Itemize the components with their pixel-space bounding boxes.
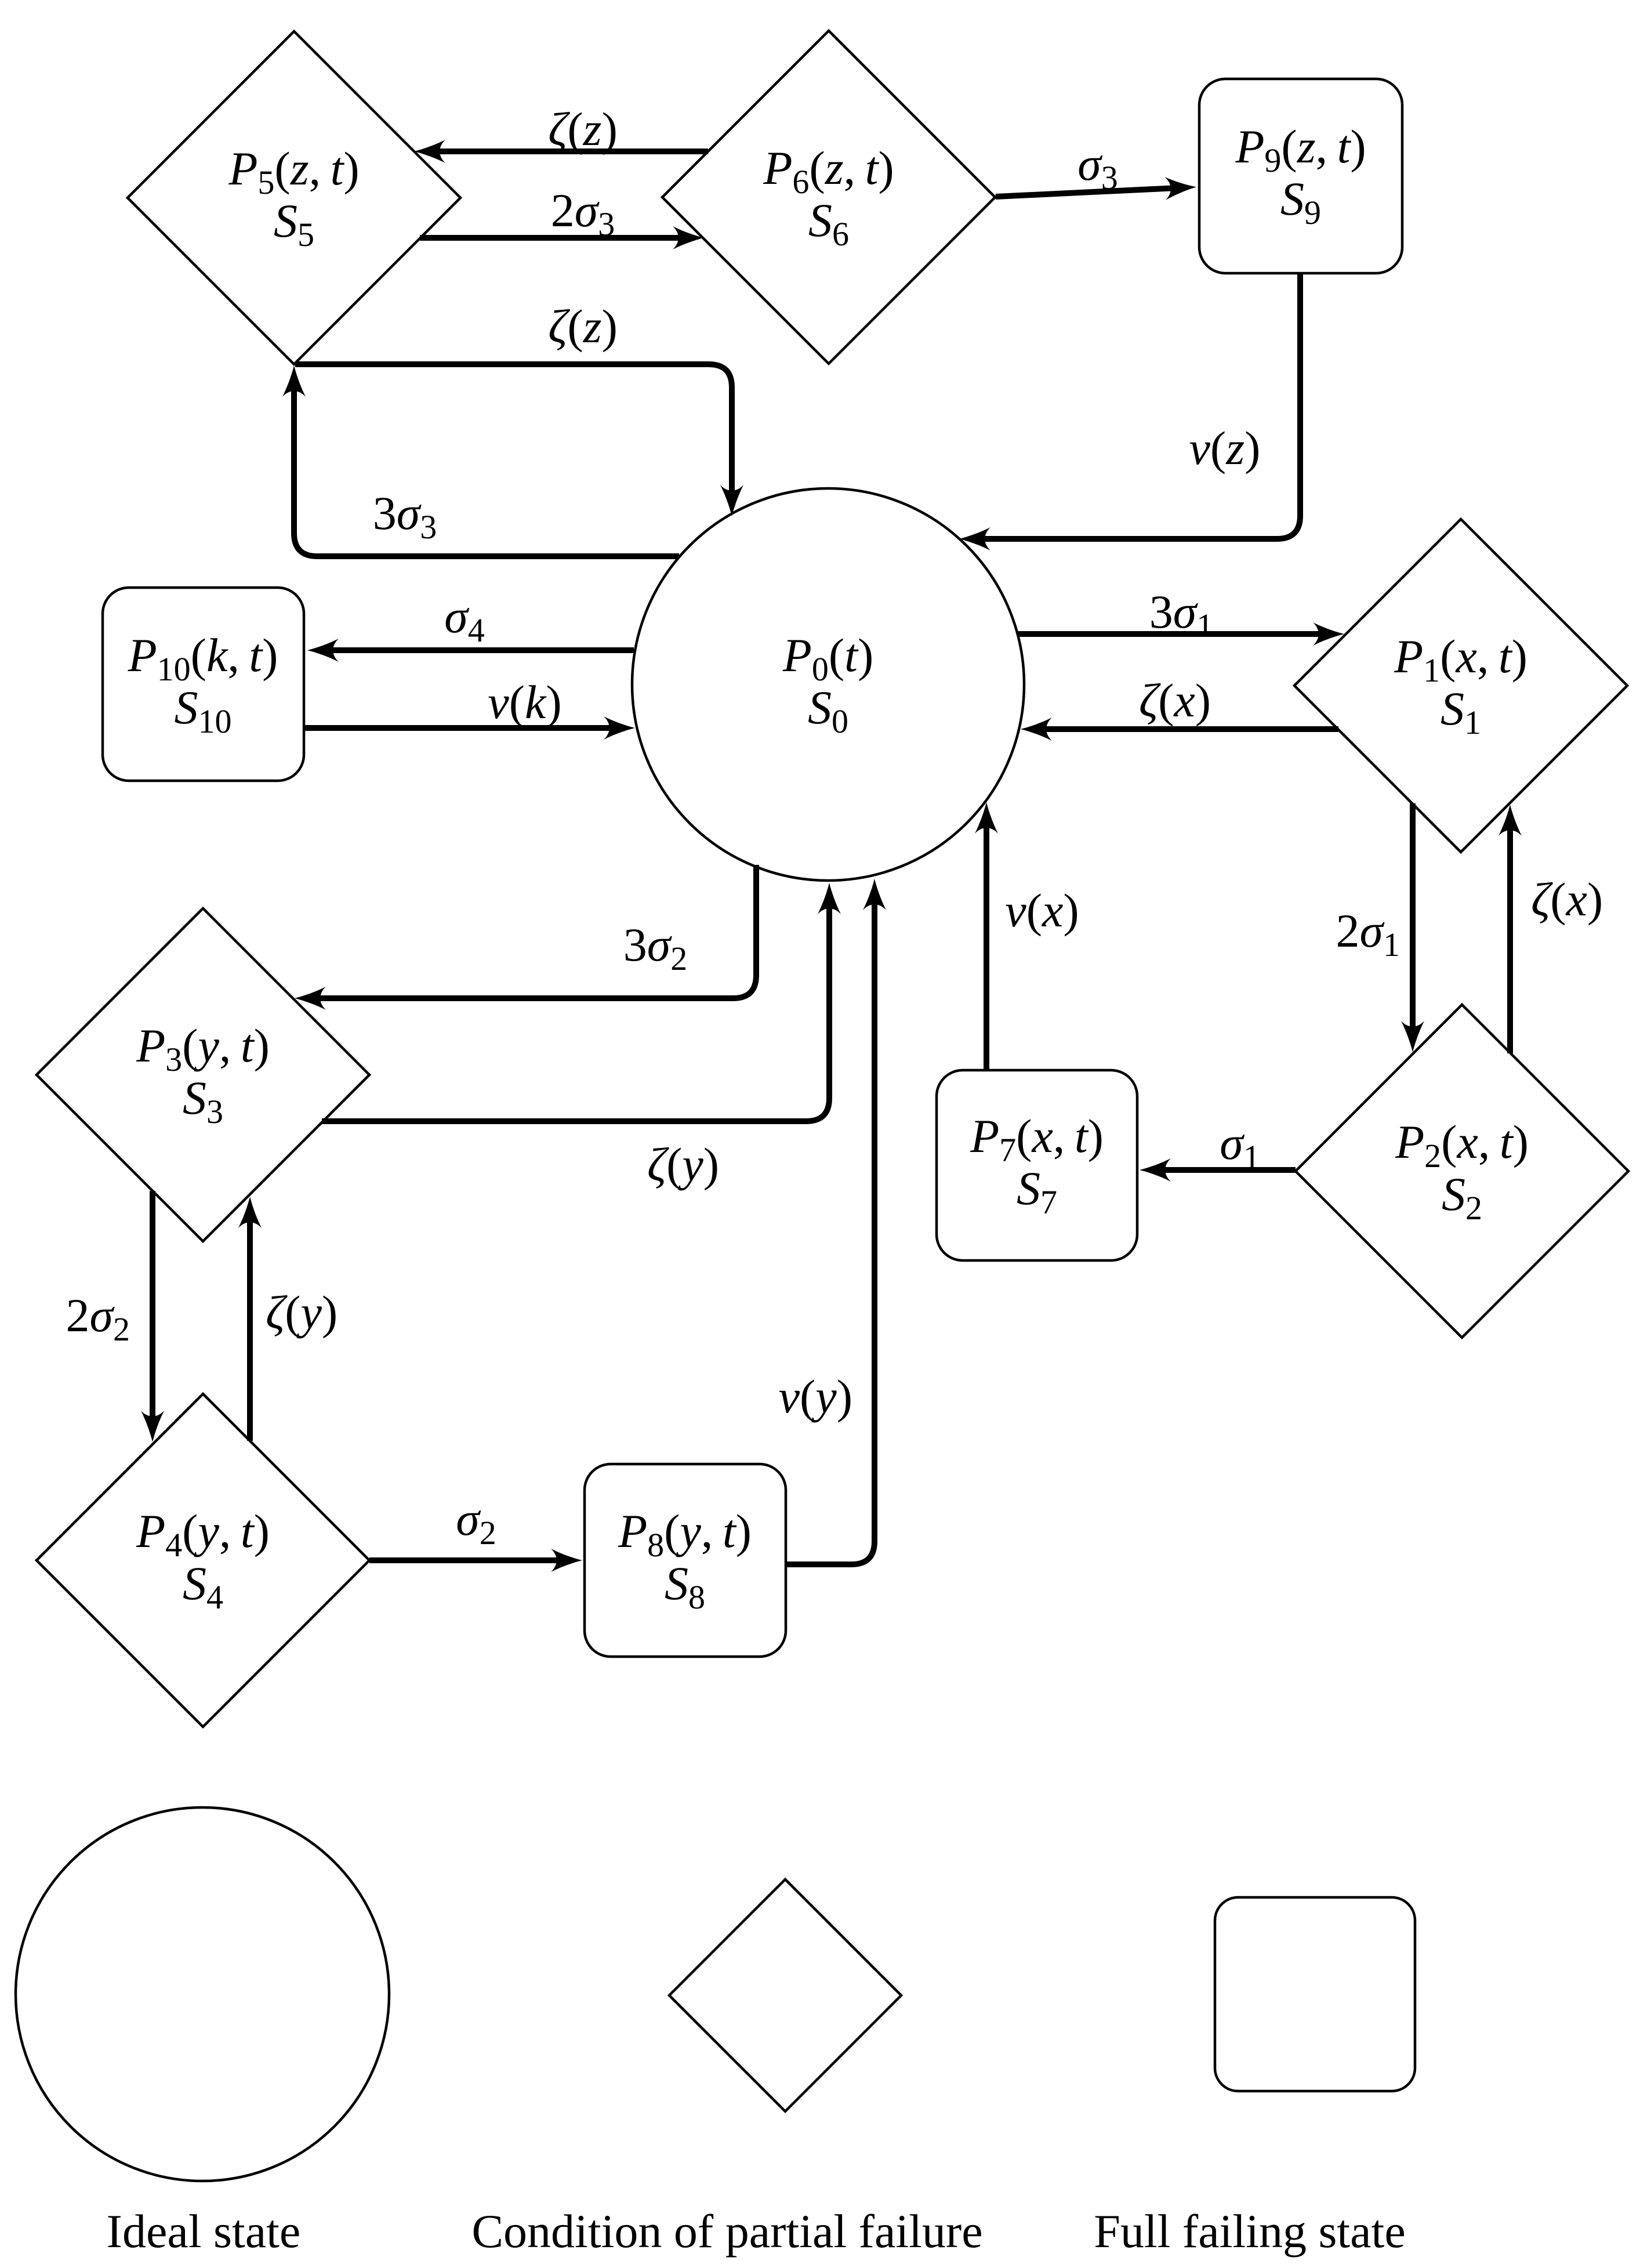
legend circle — [16, 1807, 389, 2258]
arrow 2sigma1 S1 to S2 — [1336, 803, 1413, 1039]
node S7 box — [937, 1070, 1137, 1260]
legend diamond — [471, 1879, 982, 2258]
svg-text:P1(x, t): P1(x, t) — [1394, 630, 1527, 689]
svg-text:ν(k): ν(k) — [488, 676, 561, 729]
svg-text:ν(y): ν(y) — [779, 1370, 852, 1423]
svg-text:ζ(z): ζ(z) — [548, 300, 618, 353]
svg-text:P5(z, t): P5(z, t) — [228, 142, 359, 201]
svg-text:P10(k, t): P10(k, t) — [128, 629, 278, 688]
node S8 box — [585, 1464, 786, 1657]
node S9 box — [1199, 79, 1402, 273]
svg-text:P7(x, t): P7(x, t) — [970, 1110, 1104, 1169]
legend box — [1094, 1897, 1415, 2258]
arrow zeta(x) S1 to S0 — [1034, 674, 1338, 729]
arrow nu(y) S8 to S0 — [779, 892, 875, 1564]
svg-text:P8(y, t): P8(y, t) — [618, 1505, 752, 1564]
svg-text:P2(x, t): P2(x, t) — [1395, 1115, 1529, 1175]
arrow sigma1 S2 to S7 — [1153, 1117, 1296, 1176]
svg-text:ν(z): ν(z) — [1189, 422, 1261, 474]
node S4 diamond — [37, 1394, 369, 1727]
svg-text:ζ(y): ζ(y) — [647, 1138, 719, 1191]
svg-text:Condition of partial failure: Condition of partial failure — [471, 2205, 982, 2258]
svg-text:Full failing state: Full failing state — [1094, 2205, 1405, 2258]
arrow zeta(z) S6 to S5 — [427, 103, 708, 155]
arrow 2sigma2 S3 to S4 — [66, 1191, 153, 1429]
svg-text:ν(x): ν(x) — [1005, 884, 1079, 937]
arrow nu(x) S7 to S0 — [986, 816, 1079, 1070]
arrow 2sigma3 S5 to S6 — [420, 184, 691, 243]
arrow 3sigma2 S0 to S3 — [308, 865, 756, 998]
arrow zeta(y) S3 to S0 — [322, 896, 829, 1191]
svg-text:P3(y, t): P3(y, t) — [136, 1019, 270, 1078]
arrow zeta(z) S5 to S0 — [295, 300, 732, 503]
node S0 circle — [632, 488, 1024, 881]
node S2 diamond — [1296, 1005, 1628, 1338]
svg-text:Ideal state: Ideal state — [107, 2205, 301, 2258]
svg-text:ζ(y): ζ(y) — [266, 1286, 338, 1339]
svg-text:ζ(x): ζ(x) — [1531, 873, 1603, 926]
svg-text:P9(z, t): P9(z, t) — [1235, 120, 1366, 179]
arrow nu(k) S10 to S0 — [304, 676, 622, 729]
svg-text:P4(y, t): P4(y, t) — [136, 1505, 270, 1564]
arrow zeta(y) S4 to S3 — [250, 1210, 338, 1441]
svg-text:ζ(z): ζ(z) — [548, 103, 618, 155]
svg-text:P6(z, t): P6(z, t) — [763, 142, 894, 201]
arrow sigma4 S0 to S10 — [321, 590, 634, 650]
arrow sigma3 S6 to S9 — [996, 137, 1183, 197]
node S1 diamond — [1294, 519, 1627, 852]
arrow 3sigma3 S0 to S5 — [294, 379, 679, 556]
node S10 box — [103, 588, 304, 781]
arrow nu(z) S9 to S0 — [973, 273, 1300, 539]
arrow 3sigma1 S0 to S1 — [1018, 585, 1331, 644]
node S5 diamond — [128, 31, 460, 364]
arrow sigma2 S4 to S8 — [369, 1492, 569, 1560]
arrow zeta(x) S2 to S1 — [1510, 818, 1603, 1053]
node S6 diamond — [662, 31, 995, 364]
svg-text:ζ(x): ζ(x) — [1139, 674, 1211, 727]
node S3 diamond — [37, 908, 369, 1241]
